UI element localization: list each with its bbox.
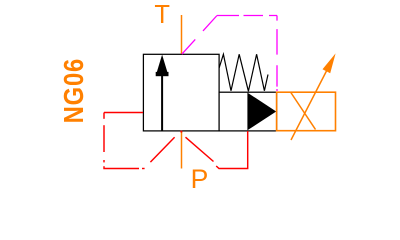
svg-text:NG06: NG06 — [57, 58, 89, 124]
adjustment arrow head — [323, 53, 336, 73]
drain line right corner and riser (solid) — [216, 131, 248, 169]
pilot stage box — [219, 92, 277, 131]
svg-text:P: P — [191, 164, 209, 194]
solenoid diagonal — [291, 92, 316, 130]
port line T — [181, 15, 183, 54]
drain diagonal left dash — [150, 137, 174, 162]
flow arrow head base slab — [156, 72, 169, 76]
pilot line diagonal (magenta dashed) — [182, 16, 217, 55]
drain line bottom dot — [142, 168, 145, 170]
pilot line horizontal (magenta dashed) — [217, 15, 277, 17]
flow arrow head cone — [156, 55, 167, 74]
adjustment arrow line — [291, 70, 327, 140]
spring — [219, 54, 268, 91]
svg-text:T: T — [154, 1, 170, 29]
node dot at P junction — [180, 131, 182, 133]
port line P — [181, 131, 183, 169]
drain port line (solid red) — [104, 112, 143, 114]
pilot line vertical (magenta dashed) — [276, 16, 278, 92]
valve body envelope — [143, 54, 219, 131]
solenoid box — [277, 92, 336, 131]
drain line left vertical dot — [103, 160, 105, 162]
drain line bottom-left corner dash — [104, 166, 139, 168]
drain diagonal right dash — [186, 137, 214, 161]
drain line left vertical dash 2 — [103, 125, 105, 152]
pilot poppet triangle — [247, 93, 276, 131]
drain line left vertical dash 1 — [103, 113, 105, 119]
flow arrow shaft — [161, 75, 163, 131]
